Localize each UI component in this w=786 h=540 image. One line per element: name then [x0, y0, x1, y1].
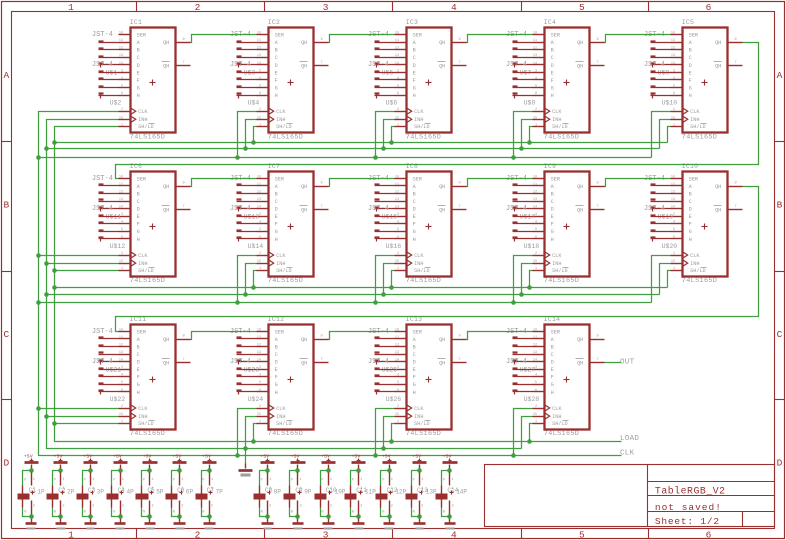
svg-text:P: P — [321, 479, 323, 483]
supply +5V symbol above C8 — [260, 454, 274, 469]
svg-text:7: 7 — [597, 358, 599, 362]
connector U$13 JST-4 — [230, 175, 259, 221]
svg-text:2: 2 — [397, 108, 399, 112]
svg-text:U$4: U$4 — [248, 99, 260, 106]
svg-text:D: D — [413, 360, 416, 366]
connector U$15 JST-4 — [368, 175, 397, 221]
svg-text:15: 15 — [119, 116, 123, 120]
svg-text:12: 12 — [671, 191, 675, 195]
svg-text:11: 11 — [257, 183, 261, 187]
wire IC10 QH wrap-around to IC11 SER — [116, 187, 759, 332]
supply +5V symbol above C11 — [352, 454, 366, 469]
svg-text:F: F — [137, 78, 140, 84]
svg-text:4: 4 — [397, 374, 399, 378]
svg-text:10: 10 — [395, 328, 399, 332]
svg-text:7: 7 — [459, 205, 461, 209]
svg-text:4: 4 — [451, 530, 457, 540]
svg-text:6: 6 — [397, 92, 399, 96]
svg-text:74LS165D: 74LS165D — [406, 277, 441, 285]
svg-text:3P: 3P — [97, 489, 105, 496]
svg-text:QH: QH — [439, 40, 445, 46]
connector U$4 JST-4 — [237, 72, 260, 107]
svg-text:10: 10 — [395, 32, 399, 36]
wire IC11 QH to IC12 SER — [191, 332, 257, 340]
svg-text:3: 3 — [673, 69, 675, 73]
svg-text:B: B — [275, 192, 278, 198]
svg-text:U$12: U$12 — [110, 243, 126, 250]
junction — [207, 468, 212, 473]
svg-text:9: 9 — [459, 335, 461, 339]
svg-text:C: C — [413, 352, 416, 358]
wire IC10 CLK pin drop to CLK bus — [652, 256, 671, 303]
svg-text:7: 7 — [183, 358, 185, 362]
connector U$18 JST-4 — [513, 216, 540, 251]
svg-text:74LS165D: 74LS165D — [268, 277, 303, 285]
svg-text:SH/LD: SH/LD — [276, 268, 292, 274]
svg-text:B: B — [275, 48, 278, 54]
wire +5V to C4 and pin header loop — [112, 471, 121, 517]
svg-text:A: A — [3, 70, 9, 81]
svg-text:14: 14 — [257, 206, 261, 210]
pin header 7P — [202, 473, 223, 523]
svg-text:INH: INH — [138, 117, 147, 123]
svg-text:JST-4: JST-4 — [92, 61, 113, 69]
junction — [251, 285, 256, 290]
svg-text:U$10: U$10 — [662, 99, 678, 106]
junction — [44, 146, 49, 151]
svg-text:IC4: IC4 — [544, 19, 556, 26]
svg-text:SER: SER — [413, 33, 422, 39]
svg-text:74LS165D: 74LS165D — [544, 277, 579, 285]
wire IC7 QH to IC8 SER — [329, 179, 395, 187]
svg-text:1: 1 — [535, 420, 537, 424]
svg-text:6: 6 — [259, 92, 261, 96]
capacitor C9 — [284, 486, 304, 508]
wire +5V to C10 and pin header loop — [321, 471, 329, 517]
svg-text:D: D — [413, 63, 416, 69]
svg-text:D: D — [275, 360, 278, 366]
svg-text:SH/LD: SH/LD — [414, 268, 430, 274]
svg-text:8P: 8P — [274, 489, 282, 496]
svg-text:1: 1 — [421, 478, 423, 482]
svg-text:N: N — [413, 510, 415, 514]
svg-text:12: 12 — [395, 47, 399, 51]
svg-text:12: 12 — [395, 191, 399, 195]
wire IC6 SH/LD pin to SH/LD trunk — [55, 270, 119, 272]
svg-text:E: E — [551, 367, 554, 373]
svg-text:1: 1 — [397, 420, 399, 424]
connector U$10 JST-4 — [651, 72, 678, 107]
svg-text:QH: QH — [439, 184, 445, 190]
junction — [29, 468, 34, 473]
capacitor C5 — [136, 486, 156, 508]
svg-text:JST-4: JST-4 — [368, 205, 389, 213]
svg-text:+5V: +5V — [291, 454, 300, 460]
junction — [147, 514, 152, 519]
svg-text:7: 7 — [459, 61, 461, 65]
svg-text:12: 12 — [257, 47, 261, 51]
svg-text:2: 2 — [121, 405, 123, 409]
svg-text:7: 7 — [321, 205, 323, 209]
svg-text:74LS165D: 74LS165D — [268, 133, 303, 141]
svg-text:4: 4 — [121, 374, 123, 378]
svg-text:2: 2 — [259, 252, 261, 256]
svg-text:P: P — [202, 479, 204, 483]
junction — [381, 446, 386, 451]
svg-text:B: B — [551, 192, 554, 198]
svg-text:SER: SER — [413, 176, 422, 182]
svg-text:5: 5 — [673, 85, 675, 89]
svg-text:1: 1 — [211, 487, 213, 491]
supply +5V symbol above C13 — [412, 454, 426, 469]
svg-text:QH: QH — [163, 40, 169, 46]
svg-text:E: E — [413, 367, 416, 373]
svg-text:N: N — [352, 510, 354, 514]
svg-text:E: E — [137, 70, 140, 76]
svg-text:13: 13 — [671, 54, 675, 58]
svg-text:11: 11 — [671, 39, 675, 43]
wire IC10 SH/LD pin drop to SH/LD bus — [668, 271, 671, 288]
svg-text:1: 1 — [259, 267, 261, 271]
svg-text:C: C — [551, 55, 554, 61]
svg-text:15: 15 — [533, 116, 537, 120]
wire IC7 INH pin drop to INH bus — [246, 264, 257, 295]
svg-text:6P: 6P — [186, 489, 194, 496]
svg-text:6: 6 — [706, 2, 712, 13]
svg-text:1: 1 — [391, 478, 393, 482]
svg-text:CLK: CLK — [138, 253, 148, 259]
svg-text:14: 14 — [257, 359, 261, 363]
svg-text:74LS165D: 74LS165D — [544, 133, 579, 141]
svg-text:INH: INH — [414, 117, 423, 123]
junction — [177, 514, 182, 519]
svg-text:QH: QH — [577, 337, 583, 343]
wire IC4 SH/LD pin drop to SH/LD bus — [530, 127, 533, 143]
junction — [447, 514, 452, 519]
capacitor C12 — [376, 486, 398, 508]
wire IC9 QH to IC10 SER — [605, 179, 671, 187]
wire SH/LD net: IC1 SH/LD pin, trunk down to bottom LOAD line, to LOAD label — [55, 127, 622, 442]
svg-text:G: G — [413, 229, 416, 235]
wire IC12 QH to IC13 SER — [329, 332, 395, 340]
svg-text:F: F — [275, 222, 278, 228]
svg-text:U$22: U$22 — [110, 396, 126, 403]
svg-text:14: 14 — [533, 62, 537, 66]
pin header 14P — [443, 473, 467, 523]
svg-text:N: N — [143, 510, 145, 514]
supply +5V symbol above C7 — [202, 454, 216, 469]
svg-text:2: 2 — [121, 108, 123, 112]
svg-text:2: 2 — [452, 505, 454, 509]
svg-text:INH: INH — [690, 117, 699, 123]
svg-text:H: H — [275, 237, 278, 243]
svg-text:CLK: CLK — [620, 450, 635, 458]
svg-text:INH: INH — [138, 261, 147, 267]
svg-text:CLK: CLK — [552, 406, 562, 412]
junction — [417, 468, 422, 473]
wire +5V to C8 and pin header loop — [260, 471, 268, 517]
svg-text:CLK: CLK — [414, 109, 424, 115]
svg-text:F: F — [413, 375, 416, 381]
svg-text:JST-4: JST-4 — [506, 358, 527, 366]
svg-text:E: E — [413, 70, 416, 76]
supply +5V symbol above C9 — [291, 454, 306, 469]
wire IC5 INH pin drop to INH bus — [660, 120, 671, 149]
junction — [373, 453, 378, 458]
svg-text:D: D — [275, 207, 278, 213]
svg-text:C: C — [551, 352, 554, 358]
svg-text:2: 2 — [259, 108, 261, 112]
svg-text:5: 5 — [121, 228, 123, 232]
shift register IC8 74LS165D — [395, 163, 467, 285]
svg-text:SH/LD: SH/LD — [414, 421, 430, 427]
junction — [527, 285, 532, 290]
svg-text:F: F — [137, 375, 140, 381]
svg-text:B: B — [413, 48, 416, 54]
svg-text:SER: SER — [689, 33, 698, 39]
svg-text:6: 6 — [259, 389, 261, 393]
svg-text:JST-4: JST-4 — [230, 205, 251, 213]
junction — [44, 261, 49, 266]
svg-text:C: C — [551, 199, 554, 205]
svg-text:5: 5 — [259, 85, 261, 89]
junction — [251, 439, 256, 444]
svg-text:14: 14 — [533, 206, 537, 210]
svg-text:13: 13 — [257, 54, 261, 58]
svg-text:74LS165D: 74LS165D — [130, 430, 165, 438]
svg-text:CLK: CLK — [414, 253, 424, 259]
junction — [326, 468, 331, 473]
svg-text:1: 1 — [673, 267, 675, 271]
svg-text:3: 3 — [121, 213, 123, 217]
capacitor C14 — [436, 486, 459, 508]
svg-text:9: 9 — [183, 335, 185, 339]
svg-text:2: 2 — [121, 252, 123, 256]
junction — [511, 453, 516, 458]
svg-text:1: 1 — [121, 123, 123, 127]
svg-text:G: G — [275, 382, 278, 388]
junction — [265, 514, 270, 519]
svg-text:5: 5 — [535, 228, 537, 232]
supply +5V symbol above C6 — [172, 454, 186, 469]
svg-text:7P: 7P — [216, 489, 224, 496]
svg-text:1: 1 — [33, 478, 35, 482]
svg-text:QH: QH — [163, 64, 169, 70]
wire IC14 SH/LD pin drop to SH/LD bus — [530, 424, 533, 442]
svg-text:INH: INH — [552, 414, 561, 420]
svg-text:74LS165D: 74LS165D — [406, 133, 441, 141]
svg-text:9: 9 — [459, 38, 461, 42]
svg-text:14: 14 — [257, 62, 261, 66]
svg-text:U$26: U$26 — [386, 396, 402, 403]
svg-text:B: B — [413, 345, 416, 351]
svg-text:3: 3 — [121, 366, 123, 370]
wire IC4 INH pin drop to INH bus — [522, 120, 533, 149]
svg-text:QH: QH — [163, 337, 169, 343]
svg-text:5: 5 — [121, 85, 123, 89]
connector U$7 JST-4 — [506, 31, 533, 77]
ground symbol GND on INH net — [239, 464, 253, 477]
svg-text:3: 3 — [259, 69, 261, 73]
supply +5V symbol above C5 — [143, 454, 158, 469]
wire IC2 SH/LD pin drop to SH/LD bus — [254, 127, 257, 143]
svg-text:B: B — [777, 200, 783, 211]
junction — [243, 446, 248, 451]
svg-text:P: P — [173, 479, 175, 483]
supply +5V symbol above C14 — [443, 454, 458, 469]
svg-text:9: 9 — [183, 182, 185, 186]
svg-text:SER: SER — [689, 176, 698, 182]
junction — [44, 292, 49, 297]
connector U$22 JST-4 — [99, 369, 126, 404]
svg-text:4: 4 — [535, 77, 537, 81]
svg-text:4: 4 — [121, 221, 123, 225]
svg-text:3: 3 — [259, 213, 261, 217]
svg-text:JST-4: JST-4 — [230, 61, 251, 69]
svg-text:G: G — [689, 229, 692, 235]
wire IC8 QH to IC9 SER — [467, 179, 533, 187]
junction — [235, 300, 240, 305]
svg-text:not saved!: not saved! — [655, 502, 722, 513]
svg-text:4: 4 — [259, 221, 261, 225]
pin header 12P — [382, 473, 406, 523]
svg-text:15: 15 — [119, 413, 123, 417]
wire IC14 CLK pin drop to CLK bus — [514, 409, 533, 456]
svg-text:SER: SER — [137, 33, 146, 39]
svg-text:12: 12 — [671, 47, 675, 51]
svg-text:1: 1 — [259, 123, 261, 127]
svg-text:5: 5 — [535, 381, 537, 385]
svg-text:9: 9 — [459, 182, 461, 186]
svg-text:SER: SER — [413, 329, 422, 335]
svg-text:QH: QH — [301, 360, 307, 366]
svg-text:CLK: CLK — [276, 109, 286, 115]
supply +5V symbol above C1 — [24, 454, 39, 469]
wire IC11 CLK pin to CLK trunk — [39, 408, 119, 410]
connector U$6 JST-4 — [375, 72, 398, 107]
svg-text:15: 15 — [257, 413, 261, 417]
svg-text:11P: 11P — [365, 489, 376, 496]
svg-text:1: 1 — [68, 2, 74, 13]
svg-text:G: G — [275, 86, 278, 92]
svg-text:10: 10 — [533, 175, 537, 179]
svg-text:9: 9 — [597, 38, 599, 42]
svg-text:F: F — [551, 78, 554, 84]
svg-text:CLK: CLK — [690, 109, 700, 115]
svg-text:JST-4: JST-4 — [92, 31, 113, 39]
svg-text:G: G — [413, 86, 416, 92]
svg-text:N: N — [24, 510, 26, 514]
shift register IC4 74LS165D — [533, 19, 605, 141]
ground symbol below C10 — [323, 524, 335, 530]
wire IC2 INH pin drop to INH bus — [246, 120, 257, 149]
svg-text:SH/LD: SH/LD — [138, 124, 154, 130]
svg-text:N: N — [173, 510, 175, 514]
svg-text:E: E — [137, 214, 140, 220]
svg-text:SER: SER — [551, 33, 560, 39]
svg-text:C: C — [137, 352, 140, 358]
svg-text:INH: INH — [690, 261, 699, 267]
svg-text:4: 4 — [259, 374, 261, 378]
svg-text:74LS165D: 74LS165D — [406, 430, 441, 438]
svg-text:14: 14 — [119, 359, 123, 363]
svg-text:14: 14 — [395, 62, 399, 66]
wire +5V to C3 and pin header loop — [83, 471, 91, 517]
svg-text:4: 4 — [451, 2, 457, 13]
connector U$16 JST-4 — [375, 216, 402, 251]
connector U$11 JST-4 — [92, 175, 121, 221]
svg-text:6: 6 — [259, 236, 261, 240]
svg-text:D: D — [413, 207, 416, 213]
svg-text:Sheet: 1/2: Sheet: 1/2 — [655, 516, 720, 527]
svg-text:2: 2 — [330, 505, 332, 509]
svg-text:CLK: CLK — [552, 253, 562, 259]
svg-text:N: N — [54, 510, 56, 514]
svg-text:D: D — [275, 63, 278, 69]
svg-text:12: 12 — [533, 191, 537, 195]
svg-text:JST-4: JST-4 — [368, 358, 389, 366]
svg-text:N: N — [443, 510, 445, 514]
svg-text:15: 15 — [533, 260, 537, 264]
svg-text:1: 1 — [300, 478, 302, 482]
svg-text:5: 5 — [397, 85, 399, 89]
svg-text:E: E — [275, 367, 278, 373]
svg-text:INH: INH — [414, 261, 423, 267]
wire INH net stub to ground — [245, 449, 247, 464]
svg-text:12: 12 — [257, 344, 261, 348]
svg-text:10: 10 — [119, 328, 123, 332]
shift register IC5 74LS165D — [671, 19, 743, 141]
svg-text:H: H — [551, 93, 554, 99]
junction — [52, 268, 57, 273]
ground symbol below C11 — [353, 524, 365, 530]
svg-text:2: 2 — [122, 505, 124, 509]
svg-text:12: 12 — [119, 47, 123, 51]
svg-text:7: 7 — [321, 358, 323, 362]
wire IC6 INH pin to INH trunk — [47, 263, 119, 265]
svg-text:C: C — [137, 199, 140, 205]
svg-text:11: 11 — [257, 39, 261, 43]
wire IC8 CLK pin drop to CLK bus — [376, 256, 395, 303]
svg-text:7: 7 — [183, 61, 185, 65]
svg-text:12: 12 — [257, 191, 261, 195]
svg-text:1: 1 — [391, 487, 393, 491]
connector U$26 JST-4 — [375, 369, 402, 404]
shift register IC12 74LS165D — [257, 316, 329, 438]
svg-text:SH/LD: SH/LD — [552, 124, 568, 130]
svg-text:U$6: U$6 — [386, 99, 398, 106]
connector U$19 JST-4 — [644, 175, 673, 221]
svg-text:G: G — [551, 229, 554, 235]
svg-text:H: H — [551, 237, 554, 243]
wire +5V to C7 and pin header loop — [202, 471, 210, 517]
svg-text:CLK: CLK — [414, 406, 424, 412]
svg-text:15: 15 — [395, 260, 399, 264]
svg-text:P: P — [113, 479, 115, 483]
svg-text:QH: QH — [439, 64, 445, 70]
svg-text:G: G — [137, 229, 140, 235]
svg-text:14P: 14P — [456, 489, 467, 496]
svg-text:INH: INH — [138, 414, 147, 420]
svg-text:H: H — [551, 390, 554, 396]
shift register IC9 74LS165D — [533, 163, 605, 285]
wire +5V to C13 and pin header loop — [412, 471, 420, 517]
svg-text:F: F — [689, 222, 692, 228]
svg-text:11: 11 — [257, 336, 261, 340]
svg-text:1: 1 — [421, 487, 423, 491]
svg-text:12: 12 — [119, 344, 123, 348]
svg-text:9: 9 — [597, 182, 599, 186]
